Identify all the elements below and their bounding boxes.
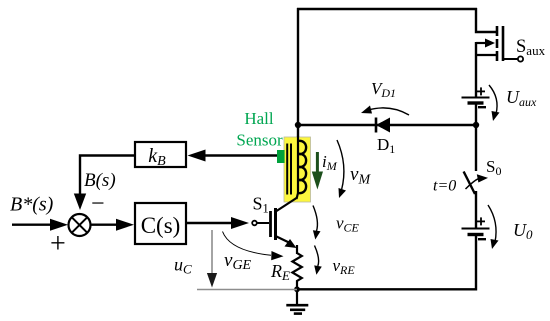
wire U0 to bottom rail — [297, 235, 476, 289]
label plus — [50, 229, 66, 260]
hall sensor core lines — [287, 144, 291, 195]
node B — [473, 122, 479, 128]
label B*(s) — [10, 194, 54, 216]
svg-text:Hall: Hall — [244, 109, 274, 128]
arrow summing junction to C(s) — [91, 219, 135, 231]
arrow uC — [207, 230, 217, 288]
label vRE — [333, 256, 356, 277]
arrow iM current (green) — [312, 152, 323, 190]
svg-text:−: − — [91, 191, 105, 217]
wire switch to battery U0 — [475, 191, 477, 228]
node C — [294, 286, 300, 292]
label t=0 — [433, 178, 456, 195]
arrow U0 voltage — [488, 205, 499, 249]
svg-text:Sensor: Sensor — [236, 130, 283, 149]
svg-text:C(s): C(s) — [141, 213, 181, 238]
label uC — [174, 255, 192, 277]
wire diode branch — [298, 124, 476, 126]
inductor coil — [297, 136, 307, 199]
svg-text:t=0: t=0 — [433, 178, 456, 195]
label vM — [350, 164, 371, 188]
battery Uaux — [462, 87, 490, 107]
hall sensor yellow box — [284, 137, 311, 202]
label RE — [270, 261, 290, 283]
arrow input B*(s) — [12, 219, 68, 231]
label VD1 — [371, 79, 396, 100]
wire gray reference line — [197, 289, 297, 291]
wire kB to summing junction — [74, 156, 135, 211]
block C(s) — [135, 203, 186, 244]
block kB — [135, 142, 186, 169]
label minus — [91, 191, 105, 217]
wire Uaux to node B — [475, 103, 477, 126]
label U0 — [513, 220, 533, 242]
resistor RE — [292, 253, 301, 289]
arrow from C(s) to S1 gate — [186, 217, 249, 229]
diode D1 — [376, 118, 390, 133]
wire coil to S1 collector — [277, 198, 297, 211]
label vGE — [224, 250, 252, 273]
label Saux — [516, 37, 546, 58]
battery U0 — [462, 217, 490, 239]
wire hall sensor output to kB — [188, 150, 278, 162]
label B(s) — [84, 170, 116, 191]
wire right vertical from top rail to Saux drain — [476, 8, 497, 32]
arrow vGE — [223, 232, 284, 261]
svg-text:+: + — [50, 229, 66, 260]
transistor S1 — [252, 208, 296, 248]
label Hall Sensor — [236, 109, 283, 149]
arrow vCE voltage — [313, 206, 321, 240]
switch S0 — [464, 172, 488, 195]
wire Saux source to battery Uaux — [475, 42, 477, 97]
svg-text:B*(s): B*(s) — [10, 194, 54, 216]
wire emitter to resistor — [296, 245, 298, 254]
svg-text:B(s): B(s) — [84, 170, 116, 191]
ground — [286, 289, 308, 314]
arrow vRE voltage — [314, 246, 322, 275]
arrow Uaux voltage — [489, 85, 500, 121]
wire left vertical from top rail to node A — [297, 8, 299, 140]
arrow VD1 voltage — [361, 106, 409, 116]
label iM — [322, 152, 338, 173]
transistor Saux (MOSFET) — [476, 26, 523, 62]
summing junction — [69, 214, 91, 236]
label vCE — [336, 214, 360, 235]
label Uaux — [506, 87, 537, 109]
hall sensor green probe — [277, 150, 285, 163]
label D1 — [377, 135, 395, 156]
label S1 — [253, 194, 269, 216]
node A — [295, 122, 301, 128]
label S0 — [486, 157, 501, 178]
wire top rail — [297, 8, 477, 10]
arrow vM voltage — [337, 140, 346, 198]
wire node B to switch S0 — [475, 125, 477, 171]
